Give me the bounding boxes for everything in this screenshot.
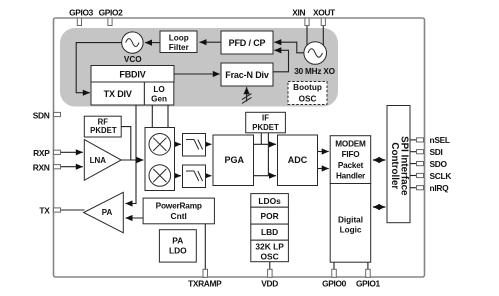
block Digital Logic [330,184,371,263]
svg-text:Handler: Handler [336,171,366,180]
svg-text:SDO: SDO [430,159,448,169]
wire SPI to SDO [410,163,417,165]
wire XIN to XO [306,26,308,47]
svg-text:LDOs: LDOs [258,196,281,206]
oscillator 30 MHz XO [294,42,335,76]
wire SPI to SCLK [410,175,417,177]
wire SPI to nSEL [410,139,417,141]
block ADC [278,135,318,186]
synthesizer gray region [60,28,338,107]
wire LO Gen to mixer I [151,105,153,128]
pin SDO [417,159,448,169]
pin nIRQ [417,183,450,193]
svg-text:SCLK: SCLK [430,171,452,181]
svg-text:PA: PA [102,208,113,217]
pin RXN [33,162,61,172]
svg-text:OSC: OSC [299,94,317,103]
wire FBDIV to Frac-N Div [174,73,220,75]
svg-text:PGA: PGA [224,155,244,165]
wire Digital Logic to SPI bidirectional [373,206,385,208]
wire PGA to ADC upper [254,143,277,145]
svg-text:LO: LO [153,85,165,94]
block PFD / CP [221,31,273,54]
pin TXRAMP [188,269,222,288]
svg-text:SDN: SDN [33,110,50,120]
pin VDD [261,269,278,288]
block PGA [213,135,254,186]
block LO Gen [144,82,173,105]
svg-text:Bootup: Bootup [293,83,322,92]
svg-text:SDI: SDI [430,147,443,157]
pin SDI [417,147,443,157]
svg-text:TX: TX [39,206,50,216]
svg-text:FBDIV: FBDIV [119,70,145,80]
block RF PKDET [84,116,121,137]
svg-text:POR: POR [261,211,279,221]
svg-text:Digital: Digital [338,215,363,224]
svg-text:FIFO: FIFO [342,150,361,159]
wire PowerRamp Cntl to TXRAMP [204,224,206,269]
svg-text:GPIO2: GPIO2 [99,8,124,18]
oscillator VCO [122,32,143,64]
pin SDN [33,110,61,120]
pin SCLK [417,171,452,181]
wire MODEM to SPI bidirectional [373,159,385,161]
wire Frac-N Div to PFD/CP [273,50,289,72]
wire mixer to filter 1 [175,143,182,145]
wire filter 1 to PGA [206,143,212,145]
wire GPIO1 [367,262,369,269]
wire RF PKDET tap [121,127,131,160]
svg-text:MODEM: MODEM [335,140,366,149]
svg-text:GPIO1: GPIO1 [356,279,381,289]
svg-text:30 MHz XO: 30 MHz XO [294,67,335,76]
block Loop Filter [160,31,197,53]
wire VDD [269,262,271,270]
wire mixer to filter 2 [175,175,182,177]
wire IF PKDET tap upper [260,133,262,145]
wire PGA to ADC lower [254,175,277,177]
svg-text:RXP: RXP [33,148,50,158]
wire SPI to SDI [410,151,417,153]
svg-text:Logic: Logic [340,226,362,235]
svg-text:GPIO0: GPIO0 [322,279,347,289]
svg-text:PFD / CP: PFD / CP [229,38,266,48]
svg-text:TX DIV: TX DIV [104,89,132,99]
wire XOUT to XO [322,26,324,47]
svg-text:PowerRamp: PowerRamp [156,200,202,210]
svg-text:VCO: VCO [124,55,142,64]
amplifier LNA [84,140,121,181]
svg-text:32K LP: 32K LP [255,242,284,252]
svg-text:XIN: XIN [292,8,305,18]
wire LO Gen to mixer Q [167,105,169,128]
pin GPIO0 [322,269,347,288]
pin XIN [292,8,309,26]
wire PFD/CP to Loop Filter [200,41,222,43]
wire TX DIV to PA [126,105,137,204]
pin nSEL [417,135,450,145]
wire PowerRamp Cntl to PA [126,217,144,219]
block 32K LP OSC [251,240,289,262]
svg-text:Packet: Packet [338,161,364,170]
svg-text:VDD: VDD [261,279,278,289]
wire VCO to TX DIV [76,43,122,93]
block LDOs [251,194,289,208]
block PowerRamp Cntl [143,198,214,224]
filter block 1 [183,134,206,157]
mixer block [145,128,175,191]
svg-text:RXN: RXN [33,162,50,172]
wire SPI to nIRQ [410,187,417,189]
pin RXP [33,148,60,158]
wire Frac-N Div digital control input [242,87,251,103]
svg-text:Gen: Gen [151,95,167,104]
svg-text:Controller: Controller [389,142,400,189]
wire RXN to LNA [61,166,83,168]
block IF PKDET [246,112,286,133]
svg-text:PKDET: PKDET [90,126,117,135]
pin GPIO1 [356,269,381,288]
wire GPIO0 [333,262,335,269]
svg-text:IF: IF [262,113,269,122]
pin TX [39,206,60,216]
chip outline [54,18,425,277]
svg-text:nIRQ: nIRQ [430,183,450,193]
block FBDIV [91,66,174,83]
pin GPIO2 [99,8,124,26]
svg-text:PKDET: PKDET [252,123,279,132]
wire ADC to MODEM lower [318,168,329,170]
svg-text:Filter: Filter [169,43,190,52]
block POR [251,207,289,224]
svg-text:XOUT: XOUT [313,8,336,18]
svg-text:Loop: Loop [169,34,189,43]
svg-text:LNA: LNA [90,156,107,165]
wire XO to PFD/CP [274,42,304,53]
amplifier PA [84,192,124,233]
svg-text:ADC: ADC [288,155,308,165]
svg-text:OSC: OSC [261,251,279,261]
block TX DIV [91,82,144,105]
wire Loop Filter to VCO [145,42,160,44]
block SPI Interface Controller [387,106,410,223]
block LBD [251,224,289,240]
block Bootup OSC [288,82,327,105]
wire filter 2 to PGA [206,175,212,177]
wire ADC to MODEM upper [318,151,329,153]
wire PA to TX [61,209,85,211]
pin GPIO3 [69,8,94,26]
filter block 2 [183,165,206,188]
wire IF PKDET tap lower [267,133,269,176]
block Frac-N Div [221,63,273,86]
block MODEM FIFO Packet Handler [330,136,371,184]
svg-text:PA: PA [172,235,183,245]
svg-text:LBD: LBD [261,227,278,237]
svg-text:LDO: LDO [169,246,187,256]
svg-text:Frac-N Div: Frac-N Div [225,70,269,80]
wire RXP to LNA [61,151,83,153]
pin XOUT [313,8,336,26]
svg-text:GPIO3: GPIO3 [69,8,94,18]
svg-text:TXRAMP: TXRAMP [188,279,222,289]
svg-text:nSEL: nSEL [430,135,450,145]
block PA LDO [159,230,196,262]
svg-text:Cntl: Cntl [171,211,187,221]
wire LNA to mixers [121,159,143,161]
